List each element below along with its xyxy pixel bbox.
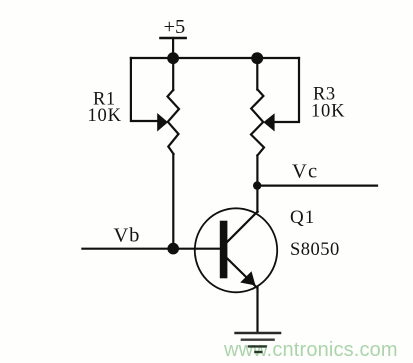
R1 wiper arrow [157,113,168,132]
svg-text:10K: 10K [311,102,345,122]
transistor Q1 collector stroke [227,212,257,242]
wire top supply rail [131,57,299,59]
transistor Q1 emitter stroke [227,259,256,288]
power bar terminal [161,37,186,40]
junction node B (+5 / R3) [251,52,263,64]
wire Vb input to base [82,248,219,250]
svg-text:10K: 10K [88,106,122,126]
transistor Q1 circle [195,208,277,292]
junction node Vc [253,181,261,189]
ground bar 3 [249,345,266,347]
svg-text:www.cntronics.com: www.cntronics.com [223,339,398,361]
junction node A (+5 / R1) [167,52,179,64]
svg-text:+5: +5 [164,16,186,38]
wire R1 bottom to Vb node [172,154,174,249]
svg-text:Vc: Vc [292,161,318,183]
ground bar 2 [242,339,274,341]
ground bar 4 [255,351,261,353]
junction node Vb / R1 [167,243,179,255]
resistor R3 zigzag body [251,90,264,156]
transistor Q1 emitter arrow [240,271,255,285]
svg-text:S8050: S8050 [290,240,340,260]
svg-text:Vb: Vb [114,225,141,247]
wire rail to R1 top [172,58,174,90]
wire emitter to ground [256,287,258,333]
wire R3 wiper loop (right side) [274,58,299,122]
transistor Q1 base bar [220,221,228,279]
wire rail to R3 top [256,58,258,90]
ground bar 1 [236,332,281,334]
wire +5 terminal to rail [172,38,174,58]
resistor R1 zigzag body [168,90,180,154]
wire R3 bottom to collector node [256,156,258,213]
wire R1 wiper loop (left side) [131,58,158,121]
wire Vc output [257,185,377,187]
R3 wiper arrow [263,113,274,131]
svg-text:Q1: Q1 [290,207,315,228]
